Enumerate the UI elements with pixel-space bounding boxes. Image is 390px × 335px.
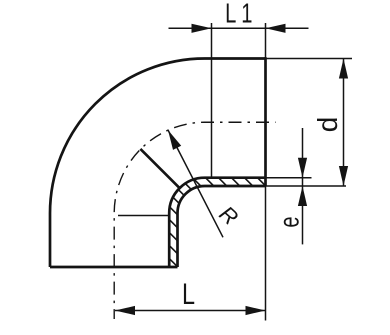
end-face extension below	[265, 186, 267, 321]
R radius stroke (thick)	[140, 149, 179, 188]
L1 extension line (left)	[211, 23, 213, 178]
L1 dimension line	[169, 27, 309, 29]
svg-text:1: 1	[241, 0, 252, 29]
wall outer line (throat side)	[178, 186, 266, 267]
bottom end face	[50, 266, 178, 269]
bend tangent marker line	[118, 215, 169, 217]
wall bore line	[169, 178, 265, 267]
svg-text:e: e	[274, 216, 305, 227]
end-face extension above	[265, 23, 267, 59]
L1 arrows	[192, 24, 286, 33]
svg-text:d: d	[312, 117, 343, 133]
d extension lines	[266, 58, 352, 60]
centre line (dash-dot)	[114, 122, 275, 319]
right end face	[264, 57, 267, 186]
e dimension line	[302, 128, 304, 244]
e extension line	[266, 177, 312, 179]
L dimension line	[115, 310, 266, 312]
svg-text:L: L	[182, 277, 195, 310]
svg-text:L: L	[225, 0, 236, 29]
R dimension line with arrow	[168, 130, 223, 237]
d dimension line	[343, 59, 345, 187]
elbow outer contour (back arc + legs)	[50, 59, 266, 268]
